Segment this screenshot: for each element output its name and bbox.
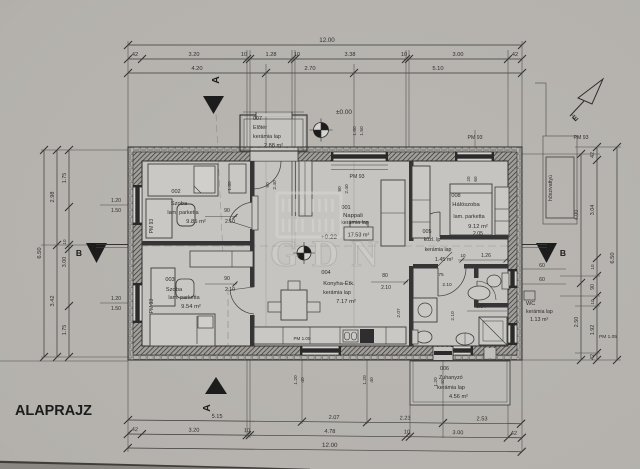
svg-text:20: 20	[466, 176, 471, 182]
svg-text:001: 001	[341, 205, 350, 211]
svg-text:hőszivattyú: hőszivattyú	[548, 175, 554, 201]
svg-text:3.20: 3.20	[189, 52, 200, 58]
svg-text:1.80: 1.80	[227, 181, 233, 191]
svg-text:2.88 m²: 2.88 m²	[264, 143, 283, 149]
svg-text:1.80: 1.80	[352, 126, 358, 136]
svg-text:PM 93: PM 93	[350, 174, 365, 180]
svg-text:Szoba: Szoba	[171, 201, 188, 207]
svg-text:1.26: 1.26	[481, 253, 491, 259]
svg-text:1.75: 1.75	[62, 325, 68, 336]
svg-text:4.20: 4.20	[191, 66, 202, 72]
svg-text:10: 10	[590, 299, 595, 305]
svg-text:kerámia lap: kerámia lap	[437, 385, 465, 391]
svg-text:±0.00: ±0.00	[336, 109, 352, 116]
svg-text:2.70: 2.70	[304, 66, 315, 72]
svg-text:40: 40	[369, 377, 375, 383]
svg-text:1.28: 1.28	[266, 52, 277, 58]
svg-text:10: 10	[460, 253, 466, 258]
svg-text:PM 1.05: PM 1.05	[599, 334, 617, 340]
svg-text:2.98: 2.98	[50, 192, 56, 203]
svg-text:90: 90	[590, 284, 596, 290]
svg-text:3.38: 3.38	[345, 52, 356, 58]
svg-text:3.42: 3.42	[50, 296, 56, 307]
svg-text:lam. parketta: lam. parketta	[168, 295, 199, 301]
svg-text:5.10: 5.10	[432, 66, 443, 72]
svg-text:2.05: 2.05	[473, 231, 483, 237]
svg-text:9.54 m²: 9.54 m²	[181, 304, 201, 310]
svg-text:PM 1.05: PM 1.05	[293, 336, 311, 341]
svg-text:lam. parketta: lam. parketta	[167, 210, 198, 216]
svg-text:42: 42	[590, 152, 596, 158]
svg-text:6.50: 6.50	[610, 252, 616, 263]
svg-text:12.00: 12.00	[322, 442, 338, 449]
svg-text:WC: WC	[526, 301, 535, 307]
svg-text:90: 90	[265, 182, 271, 188]
svg-text:B: B	[76, 248, 82, 258]
svg-text:kerámia lap: kerámia lap	[253, 134, 281, 140]
svg-text:2.10: 2.10	[450, 311, 456, 321]
svg-text:1.50: 1.50	[359, 126, 365, 136]
svg-text:9.12 m²: 9.12 m²	[468, 224, 488, 230]
svg-text:4.78: 4.78	[324, 429, 335, 435]
svg-text:kerámia lap: kerámia lap	[425, 247, 452, 253]
svg-text:42: 42	[511, 431, 517, 437]
svg-text:2.07: 2.07	[329, 415, 340, 421]
svg-text:2.40: 2.40	[272, 180, 278, 190]
svg-text:008: 008	[451, 193, 460, 199]
svg-text:2.53: 2.53	[477, 416, 488, 422]
svg-text:B: B	[560, 248, 566, 258]
svg-text:005: 005	[423, 229, 432, 235]
svg-text:42: 42	[132, 52, 138, 58]
svg-text:42: 42	[512, 52, 518, 58]
svg-text:kerámia lap: kerámia lap	[341, 220, 369, 226]
svg-text:GDN: GDN	[270, 234, 391, 275]
svg-text:6.50: 6.50	[37, 247, 43, 258]
svg-text:2.07: 2.07	[396, 308, 402, 318]
svg-text:2.10: 2.10	[381, 285, 391, 291]
svg-text:10: 10	[590, 264, 595, 270]
svg-text:ALAPRAJZ: ALAPRAJZ	[15, 403, 92, 419]
svg-text:2.40: 2.40	[344, 184, 350, 194]
svg-text:lam. parketta: lam. parketta	[453, 214, 484, 220]
svg-text:2.23: 2.23	[400, 416, 411, 422]
svg-text:75: 75	[438, 272, 444, 278]
svg-text:006: 006	[440, 366, 449, 372]
svg-text:1.13 m²: 1.13 m²	[530, 317, 548, 323]
svg-text:1.45 m²: 1.45 m²	[435, 257, 453, 263]
svg-text:Konyha-Étk.: Konyha-Étk.	[323, 280, 355, 287]
svg-text:7.17 m²: 7.17 m²	[336, 299, 356, 305]
svg-text:1.20: 1.20	[293, 375, 299, 385]
svg-text:kerámia lap: kerámia lap	[526, 309, 553, 315]
svg-text:1.20: 1.20	[111, 296, 121, 302]
svg-text:3.04: 3.04	[590, 205, 596, 216]
svg-text:1.50: 1.50	[111, 306, 121, 312]
svg-text:10: 10	[62, 239, 67, 245]
svg-text:Előtér: Előtér	[253, 125, 267, 131]
svg-text:1.20: 1.20	[362, 375, 368, 385]
svg-text:60: 60	[473, 176, 478, 182]
svg-text:A: A	[210, 76, 222, 84]
svg-text:1.20: 1.20	[111, 198, 121, 204]
svg-text:1.92: 1.92	[590, 325, 596, 336]
svg-text:3.20: 3.20	[188, 428, 199, 434]
svg-text:közl. lp: közl. lp	[424, 237, 441, 243]
svg-text:90: 90	[224, 208, 230, 214]
svg-text:90: 90	[337, 186, 343, 192]
svg-text:1.84: 1.84	[476, 304, 486, 310]
svg-text:002: 002	[171, 189, 180, 195]
svg-text:kerámia lap: kerámia lap	[323, 290, 351, 296]
svg-text:Hálószoba: Hálószoba	[452, 202, 480, 208]
svg-text:60: 60	[539, 263, 545, 269]
svg-text:40: 40	[300, 377, 306, 383]
svg-text:90: 90	[224, 276, 230, 282]
svg-text:10: 10	[241, 52, 247, 58]
svg-text:PM 93: PM 93	[149, 299, 155, 314]
svg-text:007: 007	[253, 116, 262, 122]
svg-text:42: 42	[590, 354, 596, 360]
svg-text:42: 42	[132, 427, 138, 433]
svg-text:12.00: 12.00	[319, 37, 335, 44]
svg-text:2.10: 2.10	[442, 282, 452, 288]
svg-text:PM 93: PM 93	[149, 219, 155, 234]
svg-text:5.15: 5.15	[212, 414, 223, 420]
svg-text:1.75: 1.75	[62, 173, 68, 184]
svg-text:1.50: 1.50	[111, 208, 121, 214]
svg-text:2.50: 2.50	[574, 317, 580, 328]
svg-text:A: A	[201, 404, 213, 412]
svg-text:1.20: 1.20	[433, 377, 439, 387]
svg-text:3.00: 3.00	[453, 52, 464, 58]
svg-text:3.00: 3.00	[62, 257, 68, 268]
svg-text:40: 40	[440, 379, 446, 385]
svg-text:Szoba: Szoba	[166, 287, 183, 293]
svg-text:4.56 m²: 4.56 m²	[449, 394, 468, 400]
svg-text:9.85 m²: 9.85 m²	[186, 219, 206, 225]
svg-text:2.10: 2.10	[225, 287, 235, 293]
svg-text:003: 003	[165, 277, 174, 283]
svg-text:2.10: 2.10	[225, 219, 235, 225]
svg-text:Nappali: Nappali	[343, 213, 363, 219]
svg-text:3.00: 3.00	[452, 430, 463, 436]
svg-text:60: 60	[539, 277, 545, 283]
svg-text:10: 10	[404, 430, 410, 436]
